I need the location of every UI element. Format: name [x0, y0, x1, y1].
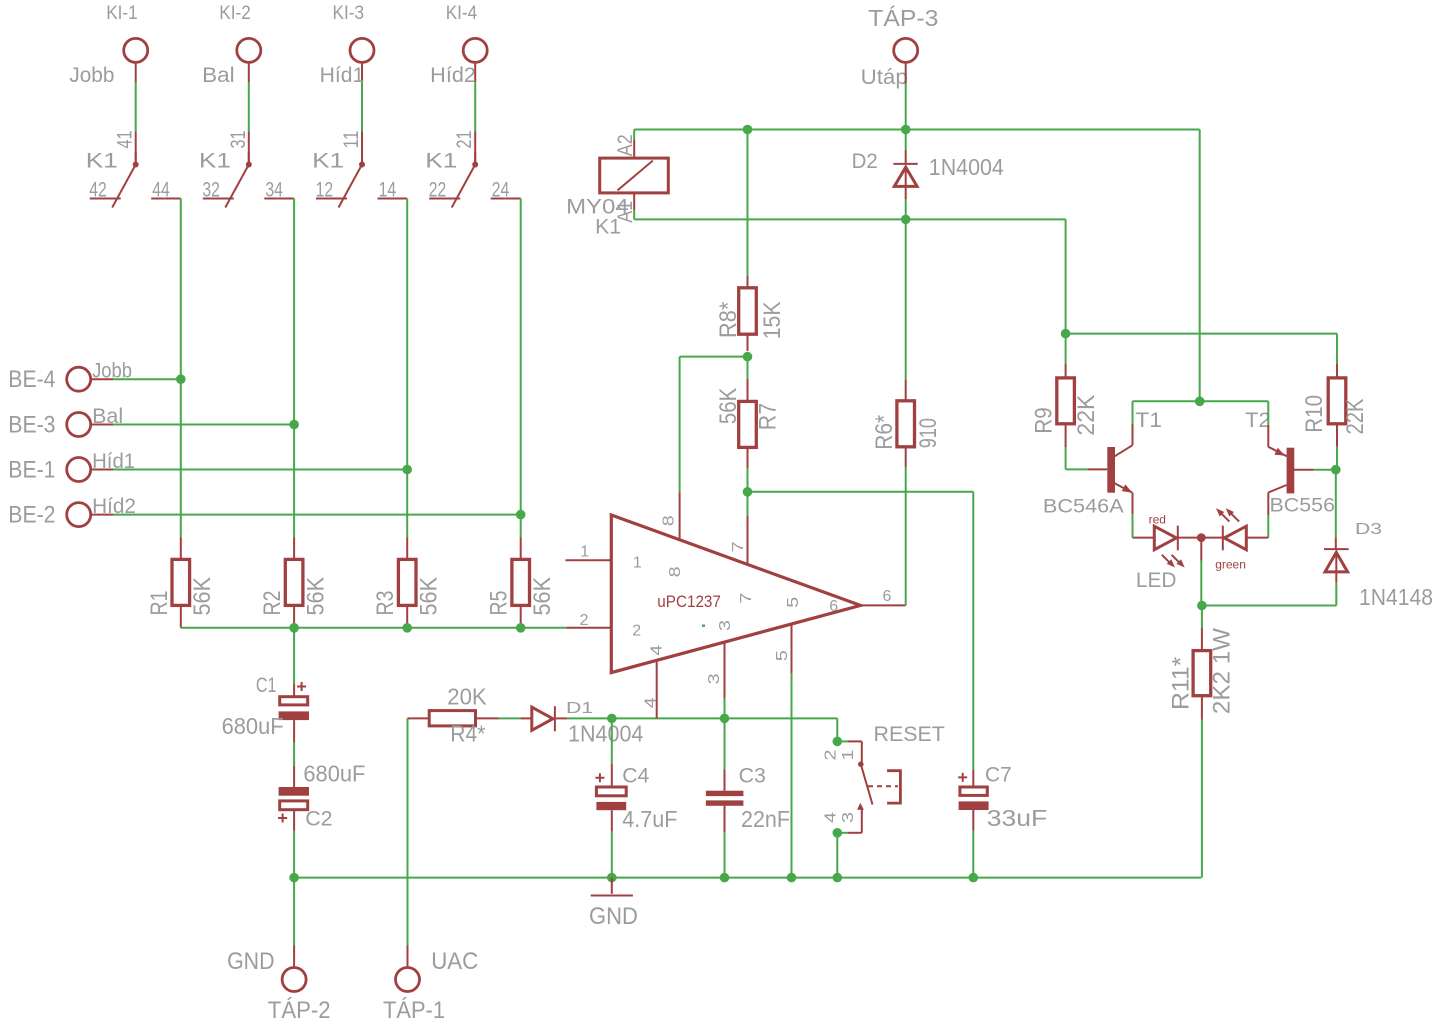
- wire pin7 node to C7: [748, 491, 974, 493]
- node junction GND RESET: [833, 873, 843, 883]
- svg-text:BE-1: BE-1: [8, 457, 55, 484]
- LED green diode: [1222, 526, 1224, 551]
- svg-text:6: 6: [883, 588, 892, 605]
- node junction R5 bottom: [516, 623, 526, 633]
- node junction Híd2: [516, 510, 526, 520]
- wire top rail to R8: [747, 130, 749, 277]
- svg-text:T1: T1: [1135, 408, 1162, 432]
- svg-text:BC556: BC556: [1270, 496, 1336, 517]
- svg-text:RESET: RESET: [874, 722, 945, 746]
- wire GND bus to TAP-2: [293, 878, 295, 946]
- svg-text:BC546A: BC546A: [1043, 497, 1124, 518]
- transistor T2 collector: [1268, 485, 1286, 493]
- node junction R9 top: [1061, 329, 1071, 339]
- resistor R8* 15K: [739, 288, 757, 334]
- svg-text:7: 7: [738, 592, 755, 603]
- svg-text:32: 32: [202, 178, 220, 202]
- svg-text:KI-2: KI-2: [219, 3, 251, 24]
- pin 4 stub of U1: [656, 661, 658, 719]
- wire KI-1 to K1 contact 41: [135, 62, 137, 82]
- svg-text:2: 2: [632, 623, 641, 640]
- svg-text:680uF: 680uF: [222, 713, 284, 739]
- wire node to R11: [1201, 606, 1203, 629]
- wire LED node down to R11 node: [1200, 538, 1202, 561]
- svg-text:3: 3: [706, 673, 723, 684]
- svg-text:24: 24: [492, 178, 510, 202]
- resistor R6* 910: [897, 401, 915, 447]
- connector BE-4 pad circle: [67, 367, 91, 391]
- wire KI-3 to K1 contact 11: [361, 62, 363, 82]
- wire node to C3: [724, 718, 726, 769]
- wire C3 to GND bus: [724, 806, 726, 832]
- switch S1 RESET pivot dot: [858, 761, 864, 767]
- transistor T1 BC546A base bar: [1107, 447, 1115, 493]
- wire R4 left to TAP-1 UAC: [407, 718, 409, 945]
- svg-text:BE-4: BE-4: [8, 366, 55, 393]
- switch K1 pivot dot 21: [472, 162, 478, 168]
- wire green LED to T2 collector: [1246, 537, 1268, 539]
- node junction collector rail: [1195, 397, 1205, 407]
- svg-text:31: 31: [226, 131, 250, 149]
- svg-text:C3: C3: [739, 764, 766, 788]
- svg-text:56K: 56K: [189, 577, 216, 616]
- svg-text:R5: R5: [486, 591, 513, 616]
- svg-text:TÁP-3: TÁP-3: [868, 5, 938, 31]
- wire R7 to pin7 node: [747, 447, 749, 468]
- resistor R5 56K: [520, 538, 522, 560]
- svg-text:3: 3: [717, 620, 734, 631]
- node junction Bal: [289, 420, 299, 430]
- node junction top rail R8: [743, 125, 753, 135]
- wire net Bal vertical column: [293, 199, 295, 538]
- svg-text:22nF: 22nF: [741, 806, 790, 832]
- resistor R4* 20K: [408, 717, 430, 719]
- svg-text:Jobb: Jobb: [69, 63, 114, 87]
- wire bus R1/R2/R3/R5 bottoms to pin 2: [181, 627, 567, 629]
- svg-text:T2: T2: [1245, 408, 1270, 432]
- svg-text:Bal: Bal: [92, 404, 123, 428]
- svg-text:R6*: R6*: [871, 415, 898, 450]
- node junction Jobb: [176, 374, 186, 384]
- wire BE-1 to column: [91, 469, 113, 471]
- node junction R2 bottom: [289, 623, 299, 633]
- svg-text:KI-1: KI-1: [106, 3, 138, 24]
- resistor R3 56K: [406, 538, 408, 560]
- diode D2 1N4004: [893, 163, 917, 165]
- node junction C3/pin3: [720, 714, 730, 724]
- node junction T2 base/R10/D3: [1331, 465, 1341, 475]
- svg-text:R1: R1: [146, 591, 173, 616]
- wire C4 to GND bus: [611, 810, 613, 832]
- svg-text:Bal: Bal: [202, 63, 235, 87]
- wire BE-2 to column: [91, 514, 113, 516]
- svg-text:11: 11: [339, 131, 363, 149]
- svg-text:R2: R2: [259, 591, 286, 616]
- svg-text:uPC1237: uPC1237: [657, 593, 721, 611]
- svg-text:LED: LED: [1136, 568, 1177, 592]
- tiny net mark: [702, 625, 705, 627]
- resistor R1 56K: [180, 538, 182, 560]
- node junction GND C3: [720, 873, 730, 883]
- svg-text:K1: K1: [595, 214, 621, 238]
- switch K1 contact stub pin 24: [491, 198, 505, 200]
- switch K1 contact stub pin 42: [90, 198, 109, 200]
- svg-text:42: 42: [89, 178, 107, 202]
- connector KI-3 pad circle: [350, 38, 374, 62]
- node junction Híd1: [402, 465, 412, 475]
- wire relay coil A1: [633, 193, 635, 210]
- svg-text:R10: R10: [1301, 395, 1328, 433]
- svg-text:15K: 15K: [759, 302, 786, 340]
- switch K1 arm 11-12: [339, 165, 363, 208]
- svg-text:56K: 56K: [529, 577, 556, 616]
- wire node down to pin 7: [747, 492, 749, 516]
- wire A2 to relay coil: [633, 130, 635, 141]
- wire TAP-3 to top rail: [905, 62, 907, 83]
- transistor T2 emitter with arrow: [1267, 425, 1269, 447]
- LED red arrows: [1162, 555, 1170, 563]
- wire C2 to GND bus: [293, 810, 295, 831]
- svg-text:UAC: UAC: [431, 948, 478, 975]
- svg-text:red: red: [1149, 513, 1166, 527]
- LED green arrows: [1221, 514, 1229, 522]
- svg-text:1N4004: 1N4004: [568, 720, 644, 746]
- switch K1 arm 31-32: [225, 165, 249, 208]
- wire R8 to R7 node: [747, 334, 749, 351]
- switch K1 arm 41-42: [112, 165, 136, 208]
- svg-text:22K: 22K: [1342, 399, 1369, 435]
- node junction GND C7: [969, 873, 979, 883]
- LED red diode: [1154, 526, 1176, 550]
- node junction GND C4: [607, 873, 617, 883]
- resistor R10 22K: [1336, 364, 1338, 378]
- wire node to C4: [611, 718, 613, 764]
- connector KI-4 pad circle: [463, 38, 487, 62]
- pin 3 stub of U1: [724, 642, 726, 698]
- svg-text:22: 22: [429, 178, 447, 202]
- transistor T2 base wire: [1294, 469, 1314, 471]
- resistor R2 56K: [293, 538, 295, 560]
- wire node to pin 4 and C3: [612, 717, 725, 719]
- ground symbol GND: [611, 878, 613, 894]
- connector KI-2 pad circle: [237, 38, 261, 62]
- pin 1 stub of U1: [566, 559, 612, 561]
- node junction GND pin5: [787, 873, 797, 883]
- svg-text:1: 1: [840, 749, 857, 760]
- wire pin8 horizontal+vertical: [680, 356, 748, 358]
- svg-text:D1: D1: [566, 700, 593, 717]
- svg-text:GND: GND: [589, 903, 638, 930]
- switch K1 pivot dot 41: [133, 162, 139, 168]
- wire T1/T2 collector rail: [1133, 400, 1269, 402]
- connector BE-2 pad circle: [67, 503, 91, 527]
- switch S1 RESET arm: [861, 764, 873, 804]
- connector TAP-2 pad circle: [282, 968, 306, 992]
- wire pin7 net to C7: [972, 492, 974, 770]
- svg-text:12: 12: [316, 178, 334, 202]
- wire R11 to GND bus: [1201, 696, 1203, 720]
- wire R9/R10 top rail: [1066, 333, 1337, 335]
- wire R9 to T1 base: [1065, 424, 1067, 447]
- svg-text:22K: 22K: [1073, 395, 1100, 436]
- wire RESET pin4 to GND bus: [836, 833, 838, 878]
- connector TAP-3 pad circle: [894, 38, 918, 62]
- wire T1 emitter to red LED: [1133, 537, 1155, 539]
- svg-text:4: 4: [643, 697, 660, 708]
- svg-text:K1: K1: [86, 149, 118, 173]
- switch K1 pivot dot 11: [359, 162, 365, 168]
- resistor R9 22K: [1065, 334, 1067, 364]
- wire Utap rail right vertical: [1199, 130, 1201, 402]
- node junction RESET pin2: [833, 737, 843, 747]
- svg-text:4: 4: [648, 645, 665, 656]
- svg-text:R4*: R4*: [450, 720, 485, 746]
- svg-text:6: 6: [829, 598, 838, 615]
- transistor T1 collector: [1115, 445, 1133, 456]
- svg-text:BE-2: BE-2: [8, 502, 55, 529]
- svg-text:1N4004: 1N4004: [929, 154, 1004, 180]
- svg-text:GND: GND: [227, 948, 274, 975]
- wire C7 to GND bus: [972, 810, 974, 831]
- switch K1 contact stub pin 32: [203, 198, 222, 200]
- wire A1 right corner down to R9: [1065, 219, 1067, 333]
- wire net Jobb vertical column: [180, 199, 182, 538]
- wire D1 to node: [556, 717, 567, 719]
- wire top rail to D2: [905, 130, 907, 151]
- node LED midpoint: [1178, 537, 1223, 539]
- svg-text:56K: 56K: [302, 577, 329, 616]
- svg-text:D2: D2: [852, 149, 878, 173]
- svg-text:TÁP-2: TÁP-2: [268, 997, 331, 1024]
- wire C1 to C2: [293, 720, 295, 742]
- node junction A1/D2: [901, 215, 911, 225]
- svg-text:BE-3: BE-3: [8, 412, 55, 439]
- switch K1 arm 21-22: [452, 165, 476, 208]
- svg-text:910: 910: [915, 418, 942, 448]
- svg-text:2: 2: [580, 612, 589, 629]
- svg-text:Híd1: Híd1: [92, 449, 135, 473]
- svg-text:TÁP-1: TÁP-1: [383, 997, 445, 1024]
- switch K1 contact stub pin 14: [378, 198, 392, 200]
- svg-text:C7: C7: [985, 763, 1012, 787]
- svg-text:21: 21: [452, 131, 476, 149]
- svg-text:5: 5: [774, 650, 791, 661]
- node junction D1/C4/pin4: [607, 714, 617, 724]
- svg-text:R9: R9: [1031, 407, 1058, 433]
- wire D2 to A1 net: [905, 199, 907, 219]
- node junction RESET pin4: [833, 828, 843, 838]
- wire BE-3 to column: [91, 424, 113, 426]
- svg-text:Utáp: Utáp: [861, 65, 908, 89]
- svg-text:R11*: R11*: [1168, 657, 1195, 710]
- svg-text:C1: C1: [256, 673, 277, 697]
- switch K1 contact stub pin 22: [429, 198, 448, 200]
- switch S1 RESET contact arrow pin 3: [857, 803, 864, 810]
- svg-text:KI-3: KI-3: [333, 3, 365, 24]
- svg-text:5: 5: [785, 597, 802, 608]
- wire net Híd2 vertical column: [520, 199, 522, 538]
- wire R6 to pin 6: [905, 447, 907, 468]
- node junction C2/GND bus: [289, 873, 299, 883]
- svg-text:Híd2: Híd2: [92, 494, 136, 518]
- pin 2 stub of U1: [567, 627, 612, 629]
- connector KI-1 pad circle: [124, 38, 148, 62]
- svg-text:K1: K1: [199, 149, 231, 173]
- connector BE-1 pad circle: [67, 458, 91, 482]
- svg-text:1: 1: [633, 555, 642, 572]
- switch K1 pivot dot 31: [246, 162, 252, 168]
- pin 6 stub of U1 output: [861, 604, 906, 606]
- wire D3 to LED node: [1335, 583, 1337, 606]
- svg-text:7: 7: [730, 541, 747, 552]
- switch K1 contact stub pin 34: [264, 198, 278, 200]
- pin 7 stub of U1: [747, 515, 749, 564]
- svg-text:KI-4: KI-4: [446, 3, 478, 24]
- pin 8 stub of U1: [679, 492, 681, 540]
- svg-text:2: 2: [822, 749, 839, 760]
- svg-text:3: 3: [840, 812, 857, 823]
- switch S1 RESET pin 1/2 stub: [837, 740, 848, 742]
- wire KI-4 to K1 contact 21: [474, 62, 476, 82]
- svg-text:A2: A2: [613, 134, 637, 156]
- svg-text:33uF: 33uF: [987, 805, 1047, 831]
- connector BE-3 pad circle: [67, 413, 91, 437]
- switch K1 contact stub pin 12: [316, 198, 335, 200]
- svg-text:1N4148: 1N4148: [1359, 584, 1433, 610]
- node junction R7/pin7/C7: [743, 487, 753, 497]
- op-amp U1 uPC1237 triangle body: [611, 515, 860, 673]
- svg-text:green: green: [1215, 558, 1246, 572]
- svg-text:R3: R3: [372, 591, 399, 616]
- svg-text:Híd2: Híd2: [430, 63, 476, 87]
- svg-text:Jobb: Jobb: [92, 359, 132, 383]
- node junction LED/D3/R11: [1197, 601, 1207, 611]
- wire GND bus horizontal: [294, 877, 1201, 879]
- svg-text:4: 4: [822, 812, 839, 823]
- svg-text:1: 1: [580, 543, 589, 560]
- wire top rail A2 net: [634, 129, 1199, 131]
- diode D1 1N4004: [532, 707, 553, 730]
- svg-text:C2: C2: [305, 806, 332, 830]
- svg-text:56K: 56K: [416, 577, 443, 616]
- svg-text:14: 14: [379, 178, 397, 202]
- node junction R8/R7/pin8: [743, 352, 753, 362]
- pin 5 stub of U1: [791, 624, 793, 674]
- svg-text:K1: K1: [312, 149, 344, 173]
- svg-text:R7: R7: [755, 403, 782, 430]
- wire node to R7: [747, 357, 749, 379]
- capacitor C4 4.7uF polarized: [595, 773, 604, 782]
- svg-text:D3: D3: [1355, 521, 1382, 538]
- wire R4 to D1: [476, 717, 499, 719]
- transistor T1 emitter with arrow: [1115, 483, 1133, 492]
- wire A1 node down to R6: [905, 219, 907, 379]
- node junction R3 bottom: [402, 623, 412, 633]
- diode D3 1N4148: [1324, 548, 1349, 550]
- wire BE-4 to column: [91, 378, 113, 380]
- wire KI-2 to K1 contact 31: [248, 62, 250, 82]
- svg-text:20K: 20K: [447, 684, 487, 710]
- resistor R11* 2K2 1W: [1193, 651, 1211, 696]
- svg-text:34: 34: [265, 178, 283, 202]
- relay coil K1 MY04 box: [600, 158, 669, 193]
- transistor T2 BC556 base bar: [1287, 448, 1295, 494]
- svg-text:44: 44: [152, 178, 170, 202]
- switch K1 contact stub pin 44: [151, 198, 165, 200]
- wire A1 net horizontal: [634, 218, 1065, 220]
- svg-text:C4: C4: [622, 764, 649, 788]
- svg-text:K1: K1: [425, 149, 457, 173]
- capacitor C3 22nF: [706, 791, 744, 796]
- connector TAP-1 pad circle: [396, 968, 420, 992]
- svg-text:8: 8: [661, 515, 678, 526]
- svg-text:41: 41: [113, 131, 137, 149]
- capacitor C7 33uF polarized: [958, 773, 967, 782]
- switch S1 RESET actuator bracket: [887, 771, 900, 803]
- wire node to RESET switch: [725, 717, 838, 719]
- wire net Híd1 vertical column: [406, 199, 408, 538]
- svg-text:R8*: R8*: [715, 302, 742, 338]
- wire R10 to T2 base node: [1336, 424, 1338, 447]
- svg-text:2K2 1W: 2K2 1W: [1209, 628, 1236, 714]
- svg-text:Híd1: Híd1: [320, 63, 365, 87]
- node junction top rail Utap: [901, 125, 911, 135]
- wire node down to D3: [1335, 470, 1337, 538]
- svg-text:680uF: 680uF: [303, 761, 365, 787]
- svg-text:4.7uF: 4.7uF: [622, 806, 677, 832]
- svg-text:8: 8: [667, 566, 684, 577]
- svg-text:56K: 56K: [715, 388, 742, 424]
- wire R2 bottom to C1: [293, 628, 295, 684]
- resistor R7 56K: [739, 401, 757, 447]
